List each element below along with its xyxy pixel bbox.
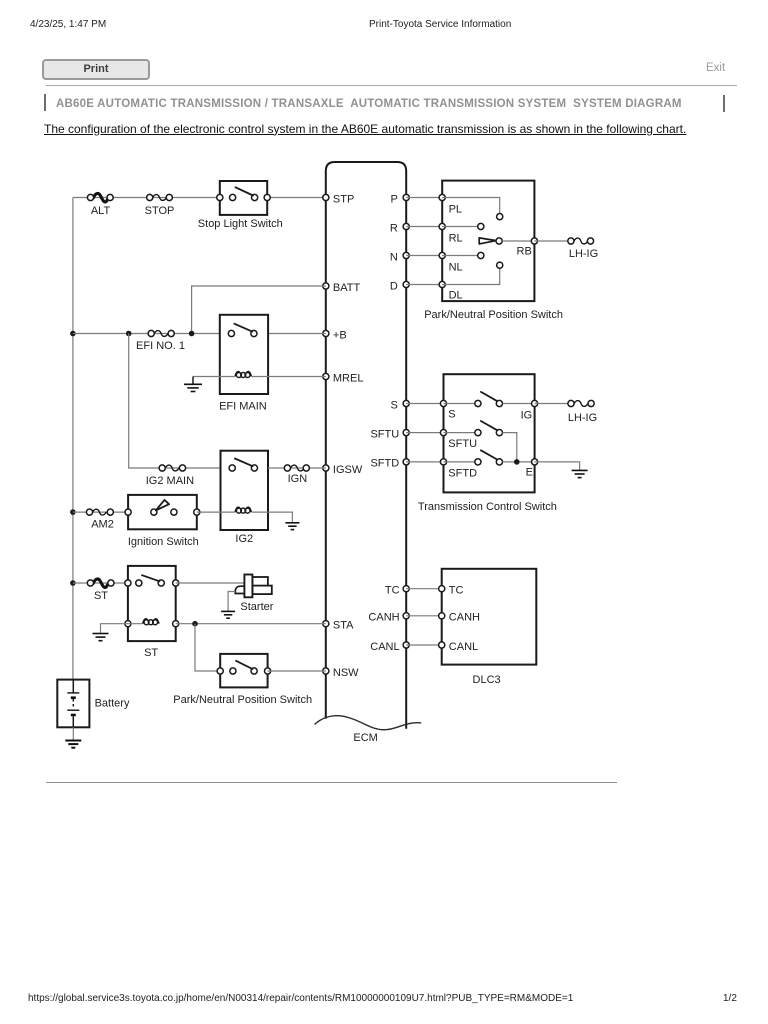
svg-text:SFTD: SFTD bbox=[370, 458, 399, 470]
DLC3 terminal CANL bbox=[439, 641, 479, 653]
svg-text:E: E bbox=[526, 466, 533, 478]
svg-text:TC: TC bbox=[449, 585, 464, 597]
svg-text:RL: RL bbox=[449, 233, 463, 245]
node PL terminal bbox=[439, 194, 503, 219]
DLC3 terminal CANH bbox=[439, 612, 480, 624]
wire: EFI NO.1 row to +B bbox=[73, 333, 326, 335]
svg-text:RB: RB bbox=[517, 246, 532, 258]
svg-text:CANH: CANH bbox=[368, 612, 399, 624]
node: junction main bus / ST row bbox=[70, 580, 76, 586]
relay IG2 switch contacts bbox=[229, 459, 257, 472]
connector DLC3 box bbox=[442, 569, 537, 686]
switch: Transmission Control Switch box bbox=[418, 374, 557, 513]
ground (battery) bbox=[65, 741, 81, 748]
svg-text:EFI MAIN: EFI MAIN bbox=[219, 401, 267, 413]
svg-text:SFTU: SFTU bbox=[448, 438, 477, 450]
svg-text:CANH: CANH bbox=[449, 612, 480, 624]
switch: Stop Light Switch bbox=[198, 181, 283, 230]
svg-text:IG2 MAIN: IG2 MAIN bbox=[146, 475, 194, 487]
relay ST (box) bbox=[128, 566, 176, 659]
ECM terminal CANH bbox=[368, 612, 409, 624]
svg-text:LH-IG: LH-IG bbox=[569, 248, 598, 260]
svg-text:AM2: AM2 bbox=[91, 519, 114, 531]
ECM terminal NSW bbox=[323, 667, 359, 679]
relay EFI MAIN coil bbox=[235, 372, 251, 378]
svg-text:S: S bbox=[390, 399, 397, 411]
relay EFI MAIN (box) bbox=[219, 315, 268, 413]
wire: TC to DLC3 bbox=[406, 588, 442, 590]
wire: IG2 switch to IGN fuse to IGSW bbox=[268, 467, 326, 469]
svg-text:Park/Neutral Position Switch: Park/Neutral Position Switch bbox=[173, 694, 312, 706]
svg-text:Ignition Switch: Ignition Switch bbox=[128, 536, 199, 548]
svg-text:MREL: MREL bbox=[333, 372, 364, 384]
fuse LH-IG (TCS) bbox=[568, 400, 597, 424]
node RL terminal bbox=[439, 223, 484, 244]
wire: TCS IG to LH-IG fuse bbox=[535, 403, 568, 405]
fusible link ALT bbox=[87, 193, 113, 217]
node NL terminal bbox=[439, 252, 484, 273]
wire: SFTD to TCS bbox=[406, 461, 443, 463]
fusible link ST bbox=[87, 579, 114, 602]
fuse LH-IG (PNP) bbox=[568, 238, 598, 260]
svg-text:CANL: CANL bbox=[370, 641, 399, 653]
svg-text:S: S bbox=[448, 409, 455, 421]
svg-text:D: D bbox=[390, 280, 398, 292]
battery bbox=[57, 680, 130, 728]
ECM terminal MREL bbox=[323, 372, 364, 384]
svg-text:N: N bbox=[390, 251, 398, 263]
ground (starter) bbox=[221, 611, 235, 618]
svg-text:ST: ST bbox=[94, 590, 108, 602]
wire: PNP to NSW terminal bbox=[268, 670, 326, 672]
fuse AM2 bbox=[86, 509, 113, 531]
wire: main left vertical bus from ALT row to Battery bbox=[72, 198, 74, 680]
ECM terminal SFTU bbox=[370, 428, 409, 440]
wire: battery to ground bbox=[72, 727, 74, 740]
wire: AM2 row bbox=[73, 511, 128, 513]
fuse STOP bbox=[145, 194, 175, 217]
svg-text:STA: STA bbox=[333, 620, 354, 632]
ground (IG2 coil) bbox=[285, 523, 299, 530]
ground (EFI MAIN coil) bbox=[184, 377, 202, 392]
switch: Ignition Switch (box) bbox=[125, 495, 200, 548]
wire: ignition switch to IG2 coil bbox=[197, 511, 235, 513]
ECM terminal +B bbox=[323, 329, 347, 341]
ECM terminal CANL bbox=[370, 641, 409, 653]
node: junction main bus / EFI NO.1 row bbox=[70, 331, 76, 337]
relay ST coil bbox=[125, 619, 179, 627]
svg-text:PL: PL bbox=[449, 204, 462, 216]
wire: STA row bbox=[176, 623, 326, 625]
svg-text:SFTU: SFTU bbox=[370, 428, 399, 440]
svg-text:IGN: IGN bbox=[288, 473, 308, 485]
wire: starter nose to ground bbox=[228, 592, 235, 612]
ECM terminal BATT bbox=[323, 282, 361, 294]
wire: SFTU to TCS bbox=[406, 432, 443, 434]
svg-text:IGSW: IGSW bbox=[333, 464, 363, 476]
wire: BATT branch bbox=[192, 286, 326, 334]
TCS SFTD contact row bbox=[440, 450, 537, 479]
wire: P to PNP switch bbox=[406, 197, 442, 199]
node: junction IG2 MAIN branch bbox=[126, 331, 132, 337]
svg-text:ECM: ECM bbox=[353, 732, 377, 744]
wire: S to TCS bbox=[406, 403, 443, 405]
DLC3 terminal TC bbox=[439, 585, 464, 597]
TCS SFTU contact row bbox=[440, 421, 516, 462]
svg-text:R: R bbox=[390, 222, 398, 234]
svg-text:Battery: Battery bbox=[95, 698, 130, 710]
ECM terminal SFTD bbox=[370, 458, 409, 470]
fuse IGN bbox=[284, 465, 309, 485]
wire: MREL row bbox=[193, 376, 326, 378]
PNP rotary wiper RB bbox=[479, 238, 537, 258]
svg-text:Transmission Control Switch: Transmission Control Switch bbox=[418, 501, 557, 513]
wire: D to PNP switch bbox=[406, 284, 442, 286]
node DL terminal bbox=[439, 262, 503, 301]
node: junction BATT branch bbox=[189, 331, 195, 337]
svg-text:ALT: ALT bbox=[91, 205, 111, 217]
relay IG2 (box) bbox=[221, 451, 269, 545]
ECM terminal STA bbox=[323, 620, 354, 632]
wire: NSW branch bbox=[195, 624, 220, 671]
ground (TCS) bbox=[572, 470, 588, 477]
svg-text:STOP: STOP bbox=[145, 205, 175, 217]
node: junction STA / NSW branch bbox=[192, 621, 198, 627]
svg-text:NSW: NSW bbox=[333, 667, 359, 679]
wire: TCS E to ground bbox=[535, 462, 580, 470]
ECM terminal N bbox=[390, 251, 409, 263]
svg-text:P: P bbox=[390, 193, 397, 205]
svg-text:SFTD: SFTD bbox=[448, 467, 477, 479]
ECM terminal TC bbox=[385, 585, 409, 597]
ECM terminal P bbox=[390, 193, 409, 205]
node: junction main bus / AM2 row bbox=[70, 509, 76, 515]
switch: Park/Neutral Position Switch (NSW) bbox=[173, 654, 312, 706]
ECM terminal STP bbox=[323, 193, 355, 205]
fuse IG2 MAIN bbox=[146, 465, 194, 487]
TCS S contact row bbox=[440, 392, 537, 422]
wire: RB to LH-IG fuse bbox=[534, 240, 567, 242]
svg-text:DL: DL bbox=[449, 289, 463, 301]
wire: top row ALT-STOP-StopLightSwitch to STP bbox=[73, 197, 326, 199]
ECM terminal IGSW bbox=[323, 464, 363, 476]
ground (ST coil) bbox=[93, 634, 109, 641]
ECM terminal S bbox=[390, 399, 409, 411]
switch: Park/Neutral Position Switch (PRND) box bbox=[424, 181, 563, 322]
wire: IG2 coil to ground bbox=[251, 512, 292, 522]
svg-text:IG2: IG2 bbox=[235, 533, 253, 545]
svg-text:+B: +B bbox=[333, 329, 347, 341]
relay EFI MAIN switch contacts bbox=[228, 324, 257, 337]
ECM box bbox=[315, 162, 422, 744]
svg-text:LH-IG: LH-IG bbox=[568, 412, 597, 424]
svg-text:STP: STP bbox=[333, 193, 354, 205]
wire: ST coil to ground bbox=[101, 624, 143, 633]
svg-text:EFI NO. 1: EFI NO. 1 bbox=[136, 340, 185, 352]
wire: ST row bbox=[73, 582, 128, 584]
svg-text:BATT: BATT bbox=[333, 282, 361, 294]
wire: CANH to DLC3 bbox=[406, 615, 442, 617]
svg-text:IG: IG bbox=[521, 409, 533, 421]
svg-text:CANL: CANL bbox=[449, 641, 478, 653]
wire: CANL to DLC3 bbox=[406, 644, 442, 646]
wire: R to PNP switch bbox=[406, 226, 442, 228]
svg-text:TC: TC bbox=[385, 585, 400, 597]
svg-text:Starter: Starter bbox=[240, 601, 273, 613]
ECM terminal D bbox=[390, 280, 409, 292]
svg-text:ST: ST bbox=[144, 647, 158, 659]
ECM terminal R bbox=[390, 222, 409, 234]
svg-text:NL: NL bbox=[449, 262, 463, 274]
fuse EFI NO. 1 bbox=[136, 330, 185, 352]
relay ST switch contacts bbox=[125, 575, 179, 586]
starter motor bbox=[235, 575, 273, 614]
svg-text:DLC3: DLC3 bbox=[473, 674, 501, 686]
wire: ST switch to Starter bbox=[176, 582, 245, 584]
wire: IG2 MAIN branch vertical bbox=[129, 334, 221, 469]
wire: N to PNP switch bbox=[406, 255, 442, 257]
svg-text:Stop Light Switch: Stop Light Switch bbox=[198, 218, 283, 230]
svg-text:Park/Neutral Position Switch: Park/Neutral Position Switch bbox=[424, 309, 563, 321]
relay IG2 coil bbox=[235, 507, 251, 513]
